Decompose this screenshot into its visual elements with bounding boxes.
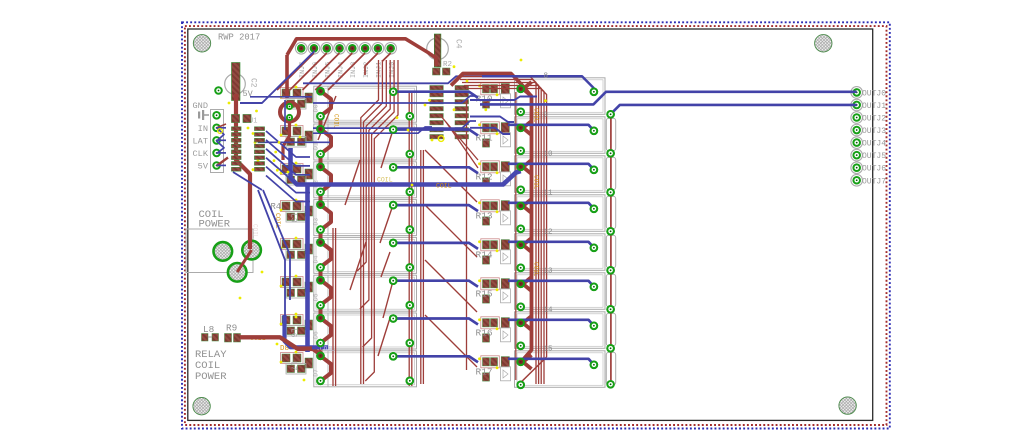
svg-text:D3: D3: [313, 218, 320, 226]
driver cluster L7: [280, 351, 313, 374]
IC U1 pads (top layer): [232, 127, 265, 171]
label RELAY COIL POWER: [195, 349, 227, 383]
capacitor C2: [215, 63, 245, 101]
wire 5V header feed (top): [287, 39, 436, 66]
svg-text:OUTJ3: OUTJ3: [862, 127, 886, 136]
svg-text:D7: D7: [313, 369, 320, 377]
svg-text:R9: R9: [226, 323, 237, 334]
svg-text:D5: D5: [313, 293, 320, 301]
ground symbol: [198, 110, 209, 120]
svg-text:POWER: POWER: [195, 371, 227, 383]
wire header stub: [285, 55, 289, 98]
wire relay coil lines left column (blue): [393, 92, 478, 363]
relay K13: [515, 267, 616, 310]
wire blue diagonal B: [263, 190, 290, 300]
driver cluster R16/D16: [478, 317, 510, 342]
relay K15: [515, 345, 616, 388]
svg-text:13: 13: [544, 267, 554, 275]
svg-text:D6: D6: [313, 331, 320, 339]
svg-text:COIL: COIL: [436, 182, 452, 189]
driver cluster R17/D17: [478, 356, 510, 381]
wire OUTJ0 trace: [480, 92, 857, 105]
wire left coil bus: [321, 91, 332, 381]
svg-text:L8: L8: [203, 324, 215, 335]
IC U1: [232, 127, 265, 171]
relay K6: [313, 313, 417, 349]
svg-text:COIL: COIL: [533, 175, 540, 190]
inductor L8: [202, 334, 219, 342]
board keepout border (red dotted): [185, 26, 887, 425]
svg-text:R14: R14: [476, 250, 493, 261]
svg-text:OUTJ4: OUTJ4: [862, 140, 886, 149]
resistor R2: [433, 68, 451, 75]
connector J1 outline: [211, 110, 224, 173]
relay K0: [313, 86, 417, 122]
svg-text:R15: R15: [476, 289, 493, 300]
relay K12: [515, 228, 616, 271]
wire OUTJ1 trace: [611, 105, 857, 114]
driver cluster L1: [280, 86, 313, 109]
wire bus left relay column (red): [333, 60, 412, 386]
coil power pad X1-2: [242, 241, 261, 260]
test point dots (yellow): [218, 59, 547, 382]
via ring top-left: [280, 103, 299, 122]
wire U2 out 4: [470, 128, 510, 134]
wire coil terminal link: [237, 250, 251, 272]
relay K11: [515, 189, 616, 232]
svg-text:5V: 5V: [198, 162, 209, 172]
board dimension outline: [188, 29, 873, 420]
wire U2 out 3: [470, 117, 514, 123]
svg-text:14: 14: [544, 306, 554, 314]
via bottom contact pad: [607, 381, 614, 388]
relay K14: [515, 306, 616, 349]
svg-text:OUTJ6: OUTJ6: [862, 165, 886, 174]
relay K3: [313, 200, 417, 236]
capacitor C4: [427, 34, 449, 67]
svg-text:OUTJ1: OUTJ1: [862, 102, 886, 111]
svg-text:R17: R17: [476, 367, 493, 378]
wire U2 out 2: [470, 97, 537, 101]
svg-text:R12: R12: [476, 172, 493, 183]
wire relay coil feed: [240, 337, 321, 354]
svg-text:C2: C2: [249, 78, 258, 88]
resistor R1: [232, 115, 252, 123]
svg-text:D4: D4: [313, 255, 320, 263]
svg-text:R2: R2: [443, 61, 452, 69]
svg-text:R13: R13: [476, 211, 493, 222]
driver cluster L2: [280, 124, 313, 147]
connector J1 pins: [213, 112, 220, 169]
svg-text:LAT: LAT: [193, 137, 208, 147]
relay K7: [313, 351, 417, 387]
svg-text:OUTJ0: OUTJ0: [862, 89, 886, 98]
wire IN-LAT-CLK links (blue): [217, 128, 224, 154]
driver cluster L5: [280, 275, 313, 298]
svg-text:POWER: POWER: [199, 219, 231, 231]
driver cluster D5: [280, 237, 313, 260]
svg-text:COIL: COIL: [533, 108, 540, 123]
relay K9: [515, 111, 616, 154]
relay pads (top layer): [317, 86, 614, 389]
driver cluster R14/D14: [478, 239, 510, 264]
relay K1: [313, 124, 417, 160]
mounting hole H2: [815, 35, 832, 52]
svg-text:15: 15: [544, 345, 554, 353]
svg-text:R10: R10: [476, 94, 493, 105]
IC U2: [430, 86, 469, 139]
svg-text:GND: GND: [193, 101, 208, 111]
svg-text:OUTJ2: OUTJ2: [862, 115, 886, 124]
wire fan from input header: [277, 53, 391, 90]
terminal X1 outline: [186, 229, 253, 273]
svg-text:D0: D0: [313, 104, 320, 112]
relay K8: [515, 78, 606, 115]
wire relay coil feed (top): [240, 337, 312, 348]
svg-text:COIL: COIL: [377, 177, 393, 184]
svg-text:L3: L3: [289, 213, 298, 223]
wire C2 power: [236, 94, 250, 249]
mounting hole H1: [193, 35, 210, 52]
svg-text:9: 9: [544, 111, 549, 119]
wire U1 outputs (blue): [266, 131, 310, 202]
svg-text:CLK: CLK: [193, 149, 209, 159]
wire coil bus lower: [285, 315, 329, 347]
wire 5V stub (red): [217, 158, 228, 166]
relay K4: [313, 237, 417, 273]
svg-text:COIL: COIL: [252, 224, 259, 239]
wire diagonals left column (red): [318, 96, 393, 356]
svg-text:L6: L6: [289, 328, 298, 338]
label COIL POWER: [199, 209, 231, 231]
resistor R1 pads (top layer): [232, 115, 252, 123]
coil power pad X1-1: [214, 242, 233, 261]
wire diagonals to drivers (red): [425, 115, 478, 367]
wire bus right relay column (red): [458, 77, 547, 385]
wire J1 to U1 (blue): [217, 128, 226, 166]
wire blue header diagonal: [240, 51, 315, 103]
svg-text:12: 12: [544, 228, 553, 236]
wire blue stub B: [284, 100, 286, 130]
svg-text:OUTJ7: OUTJ7: [862, 177, 886, 186]
relay K10: [515, 150, 616, 193]
svg-text:C4: C4: [454, 39, 463, 49]
svg-text:OUTJ5: OUTJ5: [862, 152, 886, 161]
mounting hole H4: [839, 397, 856, 414]
driver cluster R12/D12: [478, 161, 510, 186]
wire blue top horizontal: [303, 76, 520, 83]
wire coil bus drop: [305, 185, 310, 353]
driver cluster L3x: [280, 162, 313, 185]
svg-text:L7: L7: [289, 361, 298, 371]
svg-text:8: 8: [544, 72, 549, 80]
driver cluster R15/D15: [478, 278, 510, 303]
wire mid bus (blue): [250, 96, 476, 142]
mounting hole H3: [193, 398, 210, 415]
svg-text:R16: R16: [476, 328, 493, 339]
driver cluster L6: [280, 313, 313, 336]
svg-text:D1: D1: [313, 142, 320, 150]
svg-text:IN: IN: [198, 124, 208, 134]
svg-text:COIL: COIL: [333, 114, 340, 129]
driver cluster R10/D10: [478, 83, 510, 108]
svg-text:10: 10: [544, 150, 554, 158]
wire blue diagonal A: [258, 190, 285, 316]
driver cluster L4: [280, 199, 313, 222]
input header JP1 pins INJ7-INJ0: [295, 43, 396, 79]
relay K5: [313, 275, 417, 311]
wire red blob: [283, 121, 290, 160]
wire U2 out 1 / K8 contact: [482, 76, 594, 88]
coil power pad X1-3: [228, 263, 247, 282]
wire IN stub (red): [217, 124, 226, 128]
svg-text:11: 11: [544, 189, 554, 197]
driver cluster R13/D13: [478, 200, 510, 225]
wire contact lines right column (blue): [508, 125, 594, 365]
wire coil bus right column: [451, 74, 532, 370]
svg-text:RWP 2017: RWP 2017: [218, 33, 260, 43]
driver cluster R11/D11: [478, 122, 510, 147]
output header pins OUTJ0-OUTJ7: [851, 87, 886, 187]
board keepout border (blue dotted): [182, 22, 890, 428]
wire mid verticals (red): [421, 100, 467, 384]
labels relay numbers 8-15: [544, 72, 554, 353]
svg-text:COIL: COIL: [533, 262, 540, 277]
wire coil bus (thick blue): [291, 148, 521, 185]
relay K2: [313, 162, 417, 198]
wire contact bus (red): [610, 112, 612, 384]
resistor R9: [225, 334, 241, 343]
wire blue diagonal C: [233, 172, 262, 190]
